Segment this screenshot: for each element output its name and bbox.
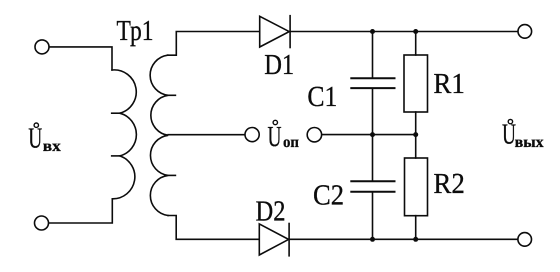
svg-text:вых: вых <box>515 134 544 151</box>
svg-text:оп: оп <box>283 134 299 151</box>
svg-text:вх: вх <box>43 138 61 155</box>
svg-text:C2: C2 <box>313 179 344 211</box>
svg-text:C1: C1 <box>307 81 337 113</box>
svg-text:Тр1: Тр1 <box>117 15 154 47</box>
svg-text:U: U <box>28 123 42 155</box>
svg-text:R2: R2 <box>433 168 465 200</box>
svg-text:D1: D1 <box>264 49 294 81</box>
svg-text:D2: D2 <box>256 195 286 227</box>
svg-text:R1: R1 <box>433 68 465 100</box>
svg-text:U: U <box>268 121 282 153</box>
